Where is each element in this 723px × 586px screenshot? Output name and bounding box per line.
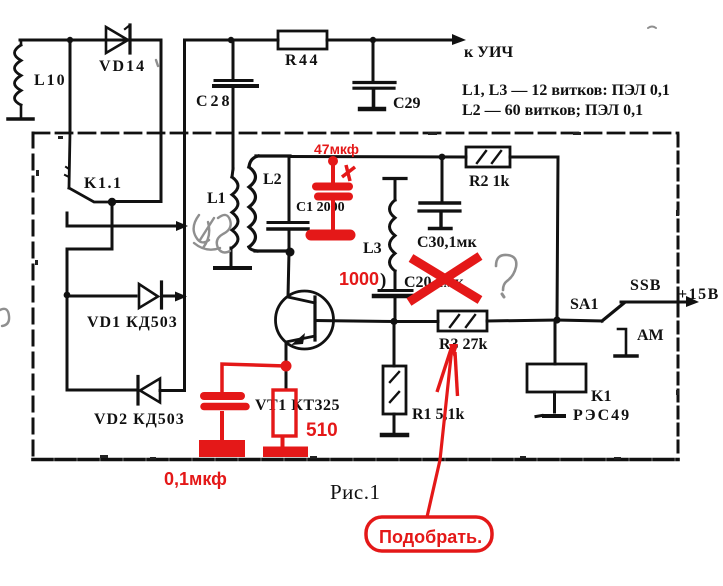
svg-text:47мкф: 47мкф [314, 141, 359, 157]
svg-text:K1: K1 [591, 388, 611, 405]
svg-text:L1: L1 [207, 190, 226, 207]
svg-text:510: 510 [306, 420, 338, 441]
svg-text:C29: C29 [393, 95, 421, 112]
svg-text:L2: L2 [263, 171, 282, 188]
svg-text:Подобрать.: Подобрать. [379, 527, 482, 547]
svg-text:SA1: SA1 [570, 296, 598, 313]
svg-text:): ) [380, 270, 386, 291]
svg-text:L3: L3 [363, 240, 382, 257]
svg-text:VD1 КД503: VD1 КД503 [87, 314, 178, 331]
svg-text:L2 — 60 витков; ПЭЛ 0,1: L2 — 60 витков; ПЭЛ 0,1 [462, 102, 643, 119]
svg-text:R1 5,1k: R1 5,1k [412, 406, 465, 423]
svg-text:SSB: SSB [630, 277, 661, 294]
svg-text:VD2 КД503: VD2 КД503 [94, 411, 185, 428]
svg-text:L1, L3 — 12 витков: ПЭЛ 0,1: L1, L3 — 12 витков: ПЭЛ 0,1 [462, 82, 670, 99]
svg-text:к УИЧ: к УИЧ [464, 44, 513, 61]
svg-text:РЭС49: РЭС49 [573, 407, 631, 424]
svg-text:C1 2000: C1 2000 [296, 200, 345, 215]
svg-text:Рис.1: Рис.1 [330, 480, 381, 504]
svg-text:AM: AM [637, 327, 664, 344]
svg-text:0,1мкф: 0,1мкф [164, 469, 227, 489]
svg-text:R44: R44 [285, 52, 320, 69]
svg-text:1000: 1000 [339, 269, 379, 289]
svg-text:C28: C28 [196, 93, 233, 110]
svg-text:R3 27k: R3 27k [439, 336, 488, 353]
svg-text:K1.1: K1.1 [84, 175, 122, 192]
svg-text:+15В: +15В [678, 286, 720, 303]
svg-text:C30,1мк: C30,1мк [417, 234, 477, 251]
svg-text:L10: L10 [34, 72, 67, 89]
svg-text:VD14: VD14 [99, 58, 146, 75]
svg-text:R2 1k: R2 1k [469, 173, 510, 190]
